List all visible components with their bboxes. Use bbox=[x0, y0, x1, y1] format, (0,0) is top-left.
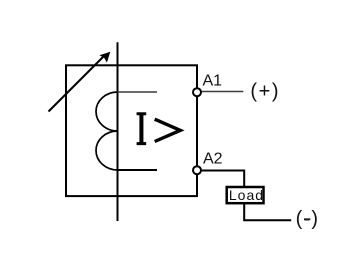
CT coil arc upper bbox=[96, 92, 118, 131]
secondary winding bottom lead bbox=[118, 169, 158, 171]
adjustability arrow (diagonal) bbox=[49, 56, 105, 112]
greater-than chevron of I> bbox=[155, 119, 181, 141]
terminal A1 bbox=[193, 88, 201, 96]
svg-text:(+): (+) bbox=[250, 80, 280, 102]
svg-text:Load: Load bbox=[229, 187, 264, 203]
wire A2 to load bbox=[201, 171, 244, 188]
arrowhead bbox=[100, 52, 111, 63]
wire A1 to (+) bbox=[201, 91, 243, 93]
overcurrent function label I> bbox=[137, 113, 146, 145]
svg-text:A1: A1 bbox=[203, 73, 223, 90]
primary conductor wire (vertical) bbox=[117, 42, 119, 221]
terminal A2 bbox=[193, 166, 201, 174]
minus stroke of (-) bbox=[304, 218, 310, 220]
wire load to (-) bbox=[244, 204, 291, 220]
CT coil arc lower bbox=[96, 131, 118, 170]
svg-text:A2: A2 bbox=[203, 151, 223, 168]
load box bbox=[227, 187, 264, 203]
relay outline box bbox=[66, 65, 197, 196]
secondary winding top lead bbox=[118, 91, 158, 93]
